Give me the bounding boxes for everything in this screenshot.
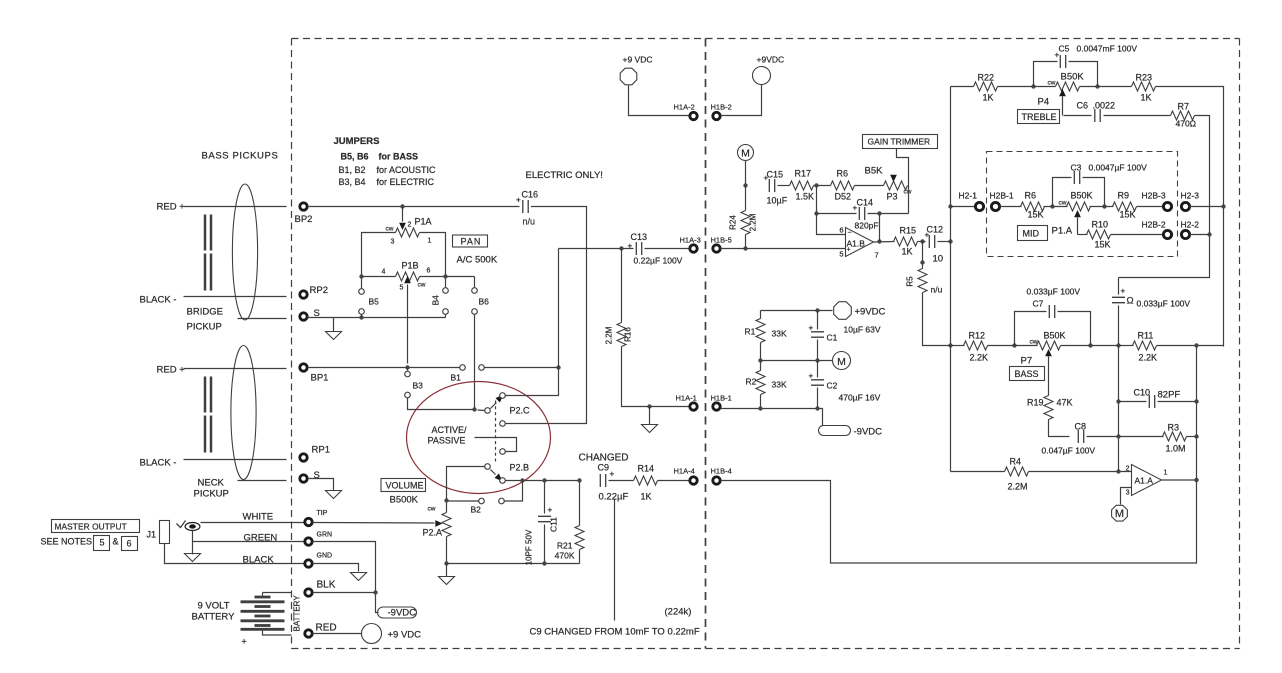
terminal GND [305, 553, 332, 568]
resistor R1 [745, 311, 787, 361]
svg-text:6: 6 [839, 226, 843, 235]
terminal BP2 [295, 203, 313, 225]
svg-text:BRIDGE: BRIDGE [187, 307, 223, 318]
svg-text:B1: B1 [451, 373, 462, 383]
resistor R12 [951, 331, 1038, 363]
svg-text:C6: C6 [1077, 101, 1089, 111]
svg-text:n/u: n/u [523, 217, 536, 227]
svg-text:C9 CHANGED FROM 10mF TO 0.22mF: C9 CHANGED FROM 10mF TO 0.22mF [530, 627, 700, 638]
svg-text:B4: B4 [431, 295, 441, 306]
wire H2B-1 to R6 [1000, 206, 1022, 208]
jumper B3 [405, 368, 475, 410]
dashed enclosure border (left panel) [292, 39, 706, 649]
svg-text:C1: C1 [827, 333, 838, 343]
GAIN TRIMMER box [863, 135, 938, 149]
label 0.033uF 100V (C7) [1027, 287, 1081, 297]
junction fb node [814, 183, 818, 187]
svg-text:+: + [610, 470, 615, 479]
junction C3 left [1050, 204, 1054, 208]
wire P1B left [362, 276, 396, 278]
junction B6 bottom [472, 407, 476, 411]
treble pot P4 [1048, 72, 1085, 116]
note C9 CHANGED [530, 627, 700, 638]
svg-text:P4: P4 [1038, 97, 1050, 108]
wire P1B right [420, 276, 475, 278]
junction H2 left [948, 204, 952, 208]
svg-text:-9VDC: -9VDC [388, 608, 417, 619]
svg-text:C7: C7 [1033, 299, 1044, 309]
terminal H2-1 [959, 191, 984, 211]
wire bias mid [761, 360, 833, 362]
wire blk net [313, 542, 379, 613]
svg-text:PAN: PAN [461, 237, 482, 247]
junction C10 right [1194, 399, 1198, 403]
svg-text:15K: 15K [1095, 240, 1111, 250]
capacitor C13 [628, 232, 683, 266]
capacitor C16 [516, 190, 538, 227]
resistor R11 [1119, 331, 1224, 363]
VOLUME box [381, 479, 426, 492]
svg-text:for ELECTRIC: for ELECTRIC [377, 177, 435, 187]
junction C12 node [948, 239, 952, 243]
wire R9 right [1137, 206, 1164, 208]
svg-text:B5, B6: B5, B6 [341, 152, 369, 162]
terminal BLK [305, 580, 336, 597]
svg-text:R6: R6 [837, 169, 849, 179]
junction R11 right [1194, 343, 1198, 347]
junction H2-3 edge [1221, 204, 1225, 208]
ground near GND terminal [351, 573, 367, 581]
svg-text:+: + [1121, 287, 1126, 296]
terminal H1B-4 [711, 467, 732, 485]
wire neck red [184, 368, 287, 370]
wire A1.A out [1162, 479, 1197, 481]
svg-text:R15: R15 [900, 226, 917, 236]
resistor R5 [906, 242, 951, 346]
junction R24 bottom [743, 246, 747, 250]
junction blk [373, 590, 377, 594]
svg-text:B50K: B50K [1044, 331, 1066, 341]
resistor R24 [729, 186, 758, 249]
svg-text:820pF: 820pF [855, 221, 879, 231]
svg-text:MASTER OUTPUT: MASTER OUTPUT [55, 522, 127, 532]
note box 6 [122, 537, 138, 551]
svg-text:470Ω: 470Ω [1176, 119, 1197, 129]
ground H1A-1 [642, 407, 658, 433]
svg-text:PASSIVE: PASSIVE [428, 436, 466, 446]
svg-text:BLACK: BLACK [243, 555, 275, 566]
svg-text:P2.B: P2.B [510, 463, 530, 473]
wire BP1 line [308, 367, 460, 369]
wire H1B-5 to pin5 [721, 248, 846, 250]
svg-text:R2: R2 [746, 377, 757, 387]
svg-text:1K: 1K [1141, 93, 1152, 103]
junction C11 bottom [542, 561, 546, 565]
terminal TIP [305, 510, 328, 526]
svg-text:47K: 47K [1057, 398, 1073, 408]
svg-text:R3: R3 [1168, 423, 1180, 433]
svg-text:TREBLE: TREBLE [1022, 112, 1057, 122]
svg-text:5: 5 [100, 538, 105, 548]
svg-text:2.2M: 2.2M [749, 213, 758, 231]
svg-text:R12: R12 [969, 331, 986, 341]
+9VDC pad (battery) [362, 624, 422, 644]
svg-text:H1A-3: H1A-3 [680, 236, 701, 245]
+9VDC pad bias [834, 302, 886, 320]
resistor R7 [1171, 102, 1197, 129]
resistor R6 (mid) [1021, 191, 1045, 220]
wire C13 left [559, 248, 634, 250]
terminal H2B-3 [1142, 191, 1172, 211]
svg-text:2.2M: 2.2M [1008, 482, 1028, 492]
svg-text:C14: C14 [857, 198, 874, 208]
wire A1.B out [874, 241, 895, 244]
wire pin3 to M [1121, 488, 1132, 505]
label BLACK [243, 555, 275, 566]
junction C3 right [1102, 204, 1106, 208]
svg-text:33K: 33K [772, 329, 787, 339]
M pad (A1.B bias) [738, 145, 754, 186]
svg-text:&: & [113, 537, 119, 547]
svg-text:R17: R17 [795, 169, 812, 179]
wire pin6 [817, 214, 846, 235]
bridge pickup core bars [205, 215, 211, 291]
svg-text:.0022: .0022 [1093, 101, 1116, 111]
junction C14 right [877, 211, 881, 215]
svg-text:cw: cw [904, 189, 912, 196]
-9VDC pill (battery) [378, 607, 417, 619]
capacitor C12 [925, 225, 944, 265]
junction R3 left [1116, 434, 1120, 438]
volume pot P2A [423, 506, 452, 538]
svg-text:C13: C13 [631, 232, 648, 242]
svg-text:BASS: BASS [1015, 369, 1039, 379]
svg-text:33K: 33K [772, 380, 787, 390]
terminal BP1 [300, 364, 329, 384]
wire R17 to R6 [814, 185, 831, 187]
svg-text:1K: 1K [641, 492, 652, 502]
wire bridge shield [238, 318, 287, 320]
junction volume top [444, 498, 448, 502]
junction C1 bottom [815, 358, 819, 362]
wire tip line [313, 522, 435, 525]
junction BP1 node [556, 365, 560, 369]
wire H2-2 right [1190, 234, 1210, 236]
feedback box outline [951, 87, 1224, 472]
capacitor C15 [764, 170, 788, 206]
wire neck black [184, 459, 287, 461]
svg-text:-9VDC: -9VDC [854, 427, 883, 438]
svg-text:PICKUP: PICKUP [194, 489, 229, 500]
svg-text:B500K: B500K [390, 495, 419, 506]
+9VDC pad right [721, 55, 785, 116]
svg-text:B6: B6 [479, 297, 490, 307]
svg-text:B2: B2 [471, 505, 482, 515]
svg-text:BP2: BP2 [295, 214, 313, 225]
jumper B2 [447, 481, 523, 515]
svg-text:0.22µF: 0.22µF [599, 492, 629, 503]
svg-text:ELECTRIC ONLY!: ELECTRIC ONLY! [526, 170, 603, 181]
svg-text:+9VDC: +9VDC [757, 55, 785, 65]
svg-text:H1A-2: H1A-2 [674, 103, 695, 112]
label P4 [1038, 97, 1050, 108]
junction R12 edge [948, 343, 952, 347]
junction C11 top [542, 478, 546, 482]
svg-text:C9: C9 [598, 463, 610, 473]
svg-text:BLK: BLK [317, 580, 336, 591]
wire neck shield [238, 480, 287, 482]
svg-text:H1A-4: H1A-4 [674, 467, 695, 476]
junction R3 right [1194, 434, 1198, 438]
label WHITE [243, 512, 274, 523]
svg-text:+: + [847, 247, 851, 254]
capacitor C6 [1064, 101, 1171, 123]
svg-text:+9 VDC: +9 VDC [388, 630, 422, 641]
svg-text:TIP: TIP [317, 510, 328, 517]
svg-text:NECK: NECK [198, 478, 225, 489]
svg-text:RP1: RP1 [312, 445, 330, 456]
terminal H2-3 [1181, 191, 1200, 211]
svg-text:ACTIVE/: ACTIVE/ [432, 425, 468, 435]
label A/C 500K [457, 255, 498, 266]
capacitor C4 [1112, 278, 1190, 472]
svg-text:+: + [809, 324, 814, 333]
svg-text:P2.C: P2.C [510, 406, 531, 416]
terminal H2-2 [1181, 220, 1200, 239]
wire output loop [721, 346, 1197, 564]
svg-text:1.5K: 1.5K [796, 192, 815, 202]
op-amp A1.A [1126, 465, 1168, 497]
wire B1 right [485, 367, 559, 369]
label NECK PICKUP [194, 478, 229, 500]
svg-text:1K: 1K [902, 247, 913, 257]
junction R16 top [619, 246, 623, 250]
svg-text:cw: cw [1059, 200, 1067, 207]
svg-text:R11: R11 [1138, 331, 1154, 341]
capacitor C14 [817, 186, 909, 231]
svg-text:6: 6 [427, 268, 431, 275]
junction C5 right [1095, 84, 1099, 88]
svg-text:P3: P3 [887, 192, 898, 202]
svg-text:10µF: 10µF [767, 196, 788, 206]
switch link dashed [495, 401, 497, 462]
jumper B4 [431, 277, 449, 318]
wire BP2 line [308, 206, 520, 208]
svg-text:RP2: RP2 [310, 285, 328, 296]
junction R2 bottom [758, 406, 762, 410]
svg-text:5: 5 [400, 285, 404, 292]
M pad bias [833, 352, 851, 370]
svg-text:R19: R19 [1027, 398, 1044, 408]
svg-text:R22: R22 [978, 73, 995, 83]
svg-text:RED +: RED + [157, 365, 186, 376]
label B5 B6 for BASS [341, 152, 419, 162]
wire C9 to R14 [609, 480, 634, 482]
BASS box [1010, 367, 1045, 381]
junction S line [359, 315, 363, 319]
svg-text:P1A: P1A [415, 217, 432, 227]
-9VDC pill (bias) [819, 426, 883, 438]
jumper B6 [472, 277, 489, 410]
terminal S (neck) [300, 470, 320, 482]
ground stub bridge [326, 318, 342, 340]
svg-text:RED +: RED + [157, 202, 186, 213]
terminal H1B-5 [711, 236, 732, 253]
svg-text:B50K: B50K [1071, 191, 1093, 201]
terminal H1A-3 [680, 236, 701, 253]
wire P2B left [447, 467, 485, 513]
svg-text:C10: C10 [1134, 388, 1151, 398]
svg-text:cw: cw [386, 226, 394, 233]
pan pot P1A [386, 207, 432, 246]
svg-text:R5: R5 [906, 276, 915, 287]
trimmer P3 [884, 181, 912, 202]
svg-text:B1, B2: B1, B2 [339, 165, 366, 175]
battery B1 9V [241, 593, 292, 636]
switch P2C throw2 [500, 421, 506, 427]
terminal H2B-1 [990, 191, 1014, 211]
svg-text:0.0047mF 100V: 0.0047mF 100V [1077, 44, 1138, 54]
jumper B1 [451, 365, 485, 383]
svg-text:M: M [741, 148, 750, 160]
svg-text:BLACK -: BLACK - [140, 295, 177, 306]
svg-text:0.033µF 100V: 0.033µF 100V [1137, 299, 1191, 309]
connector J1 [160, 521, 170, 544]
svg-text:B3, B4: B3, B4 [339, 177, 366, 187]
label ACTIVE/PASSIVE [428, 425, 468, 446]
svg-text:+: + [548, 506, 553, 515]
resistor R23 [1132, 73, 1156, 103]
ground under volume [439, 564, 455, 585]
bridge pickup coil [232, 184, 257, 320]
junction A1.A out [1194, 478, 1198, 482]
svg-text:Ω: Ω [1127, 296, 1134, 307]
wire P1B wiper down [407, 285, 409, 364]
svg-text:2.2M: 2.2M [605, 326, 614, 344]
neck pickup RED+ label [157, 365, 186, 376]
terminal H1A-4 [674, 467, 698, 485]
svg-text:C11: C11 [549, 517, 559, 532]
TREBLE box [1018, 110, 1060, 124]
wire volume bottom line [447, 563, 580, 565]
junction BP1 wiper [405, 365, 409, 369]
label B1 B2 for ACOUSTIC [339, 165, 437, 175]
capacitor C5 [1034, 44, 1138, 87]
wire J1 to black [165, 544, 304, 564]
terminal H1A-1 [676, 394, 698, 411]
svg-text:RED: RED [316, 623, 337, 634]
wire C13 right [645, 248, 690, 250]
label B500K [390, 495, 419, 506]
svg-text:1: 1 [1164, 470, 1168, 477]
wire bias bottom [721, 409, 823, 426]
svg-text:GAIN TRIMMER: GAIN TRIMMER [868, 137, 931, 147]
wire bias top [761, 310, 833, 312]
svg-text:A/C 500K: A/C 500K [457, 255, 498, 266]
PAN box [453, 235, 488, 247]
svg-text:C5: C5 [1059, 44, 1070, 54]
svg-text:(224k): (224k) [665, 607, 692, 618]
ground stub neck [326, 491, 342, 499]
svg-text:7: 7 [875, 251, 879, 260]
MASTER OUTPUT box [52, 520, 140, 533]
svg-text:4: 4 [382, 269, 386, 276]
junction C4 R11 [1116, 343, 1120, 347]
wire C16 right [506, 207, 587, 424]
resistor R17 [790, 169, 815, 202]
svg-text:B5K: B5K [865, 166, 884, 177]
wire C12 right [938, 241, 951, 243]
ampersand [113, 537, 119, 547]
bass pot P7 [1030, 331, 1066, 396]
svg-text:470µF 16V: 470µF 16V [839, 393, 881, 403]
note line [614, 499, 616, 621]
svg-text:+9VDC: +9VDC [855, 307, 886, 318]
label BRIDGE PICKUP [187, 307, 223, 333]
capacitor C3 [1053, 163, 1148, 207]
junction P1B left [359, 274, 363, 278]
capacitor C10 [1119, 388, 1197, 409]
wire R14 right [658, 480, 690, 482]
terminal H1B-1 [711, 394, 732, 411]
capacitor C7 [1015, 299, 1091, 346]
svg-text:C15: C15 [767, 170, 784, 180]
label JUMPERS [334, 136, 380, 147]
wire S neck [308, 479, 334, 491]
svg-text:1K: 1K [983, 93, 994, 103]
junction A1.B out [877, 214, 881, 244]
svg-text:JUMPERS: JUMPERS [334, 136, 380, 147]
+9VDC pad left [620, 55, 688, 116]
junction R5 top [920, 239, 924, 243]
terminal S (bridge) [300, 308, 320, 320]
mid pot P1A [1059, 191, 1093, 235]
svg-text:R21: R21 [557, 541, 573, 551]
junction R21 top [577, 478, 581, 482]
resistor R9 [1090, 191, 1137, 220]
junction H1A-1 gnd [647, 404, 651, 408]
label SEE NOTES [41, 537, 93, 547]
svg-text:+: + [809, 372, 814, 381]
wire P1A right [420, 233, 446, 277]
svg-text:SEE NOTES: SEE NOTES [41, 537, 93, 547]
terminal H2B-2 [1142, 220, 1172, 239]
resistor R3 [1119, 423, 1197, 454]
svg-text:BATTERY: BATTERY [192, 612, 236, 623]
svg-text:S: S [314, 470, 320, 481]
svg-text:+: + [242, 637, 247, 647]
svg-text:0.0047µF 100V: 0.0047µF 100V [1089, 163, 1148, 173]
svg-text:R16: R16 [624, 327, 633, 342]
svg-text:10PF 50V: 10PF 50V [525, 529, 534, 565]
junction C2 bottom [815, 406, 819, 410]
svg-text:P1B: P1B [402, 261, 419, 271]
svg-text:H2B-2: H2B-2 [1142, 220, 1166, 230]
label BASS PICKUPS [202, 151, 279, 162]
capacitor C1 [809, 311, 838, 361]
wire gnd to ground [313, 564, 359, 572]
terminal RED [305, 623, 337, 638]
svg-text:H2-2: H2-2 [1181, 220, 1200, 230]
svg-text:R6: R6 [1025, 191, 1037, 201]
svg-text:GREEN: GREEN [244, 533, 278, 544]
wire bridge red [184, 206, 287, 208]
capacitor C11 [525, 481, 559, 566]
pan pot P1B [382, 261, 431, 292]
svg-text:R10: R10 [1092, 220, 1109, 230]
svg-text:C16: C16 [522, 190, 539, 200]
svg-text:2: 2 [408, 222, 412, 229]
